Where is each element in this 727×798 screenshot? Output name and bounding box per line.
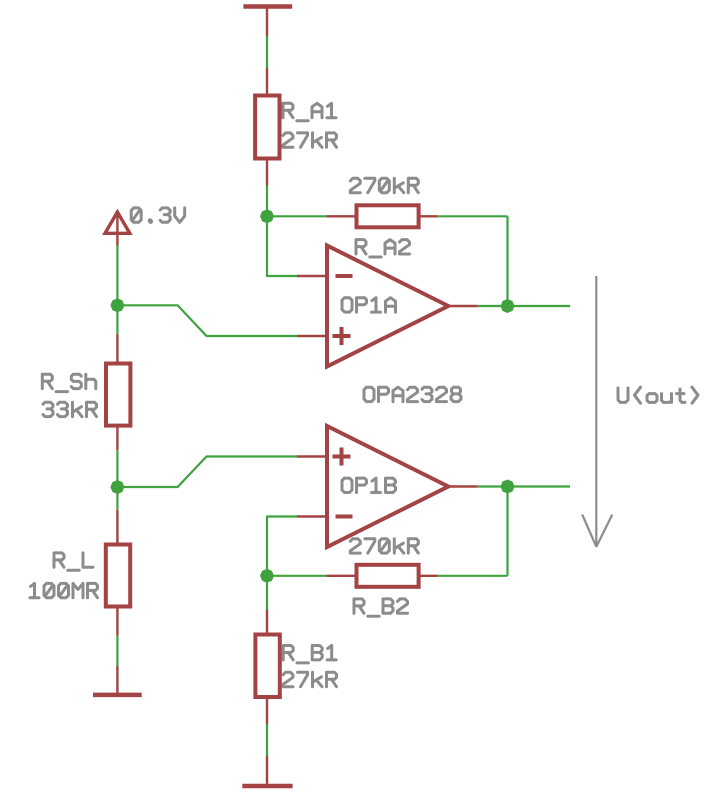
wire R_Sh to node C: [116, 450, 118, 487]
arrow U(out) head: [582, 515, 596, 547]
resistor R_B2 body: [357, 565, 419, 587]
resistor R_Sh top pin: [116, 334, 118, 363]
supply V- pin: [266, 756, 268, 786]
label R_L: [54, 553, 93, 570]
label R_B1: [283, 646, 336, 663]
junction node C: [110, 480, 124, 494]
resistor R_Sh body: [106, 364, 130, 426]
op-amp OP1B non-inverting input pin: [297, 455, 327, 457]
value 100MR (R_L): [30, 583, 98, 597]
resistor R_A1 body: [255, 96, 279, 159]
wire node B to OP1A non-inverting input: [117, 305, 297, 336]
wire R_B2 to node D: [267, 575, 327, 577]
wire R_A1 to node A: [266, 186, 268, 217]
resistor R_A2 right pin: [419, 215, 437, 217]
wire node C down to R_L: [116, 487, 118, 510]
wire node B down to R_Sh: [116, 305, 118, 334]
resistor R_L body: [106, 545, 130, 607]
op-amp OP1B minus mark: [336, 515, 353, 519]
value 27kR (R_A1): [283, 133, 337, 147]
value 270kR (R_A2): [350, 178, 418, 192]
op-amp OP1B output pin: [448, 485, 477, 487]
op-amp OP1B body: [327, 426, 448, 547]
resistor R_L top pin: [116, 510, 118, 545]
wire node A to R_A2: [267, 215, 327, 217]
label R_B2: [354, 599, 408, 616]
arrow U(out) shaft: [595, 276, 597, 547]
wire node C to OP1B non-inverting input: [117, 457, 297, 488]
label OP1B: [342, 478, 396, 492]
label 0.3V: [131, 208, 185, 222]
wire feedback B horizontal: [437, 575, 508, 577]
resistor R_B2 right pin: [419, 575, 437, 577]
junction node D: [260, 569, 274, 583]
op-amp OP1A body: [327, 246, 448, 367]
value 27kR (R_B1): [283, 672, 337, 686]
supply V- bar: [242, 784, 292, 789]
wire OP1B output: [477, 485, 508, 487]
resistor R_Sh bottom pin: [116, 426, 118, 451]
supply +0.3V pin: [116, 214, 118, 246]
wire net V+ to R_A1: [266, 36, 268, 68]
resistor R_A1 bottom pin: [266, 159, 268, 186]
wire node D to OP1B inverting input: [267, 517, 297, 576]
resistor R_B1 bottom pin: [266, 697, 268, 724]
junction node A: [260, 209, 274, 223]
wire node A to OP1A inverting input: [267, 216, 297, 276]
resistor R_B1 body: [255, 635, 279, 698]
resistor R_L bottom pin: [116, 607, 118, 636]
resistor R_B2 left pin: [327, 575, 357, 577]
wire OP1B output stub: [508, 485, 571, 487]
op-amp OP1A inverting input pin: [297, 275, 327, 277]
junction OP1B output node: [501, 480, 515, 494]
supply V+ pin: [266, 7, 268, 37]
wire R_L to ground: [116, 636, 118, 667]
wire feedback B vertical: [506, 487, 508, 576]
label R_Sh: [42, 374, 96, 391]
op-amp OP1A plus mark: [333, 334, 351, 338]
wire OP1A output: [477, 305, 508, 307]
label U(out): [618, 387, 698, 403]
resistor R_A2 body: [357, 205, 419, 227]
op-amp OP1B inverting input pin: [297, 515, 327, 517]
label OPA2328: [364, 387, 461, 401]
supply V+ bar: [243, 4, 292, 9]
wire 0.3V to node B: [116, 246, 118, 306]
resistor R_A1 top pin: [266, 68, 268, 96]
op-amp OP1A minus mark: [336, 274, 353, 278]
junction OP1A output node: [501, 299, 515, 313]
ground bar: [93, 693, 142, 698]
op-amp OP1A non-inverting input pin: [297, 335, 327, 337]
wire R_B1 to V-: [266, 724, 268, 756]
label R_A1: [283, 103, 336, 120]
resistor R_A2 left pin: [327, 215, 357, 217]
op-amp OP1B plus mark: [333, 455, 351, 459]
value 33kR (R_Sh): [43, 402, 97, 416]
ground pin: [116, 666, 118, 694]
wire node D down to R_B1: [266, 576, 268, 610]
label OP1A: [342, 298, 396, 312]
label R_A2: [356, 240, 410, 257]
value 270kR (R_B2): [350, 539, 418, 553]
wire OP1A output stub: [508, 305, 571, 307]
op-amp OP1A output pin: [448, 305, 477, 307]
wire feedback A vertical: [506, 216, 508, 306]
resistor R_B1 top pin: [266, 610, 268, 635]
wire R_A2 to output node: [437, 215, 508, 217]
supply +0.3V symbol: [105, 212, 130, 233]
junction node B: [110, 298, 124, 312]
